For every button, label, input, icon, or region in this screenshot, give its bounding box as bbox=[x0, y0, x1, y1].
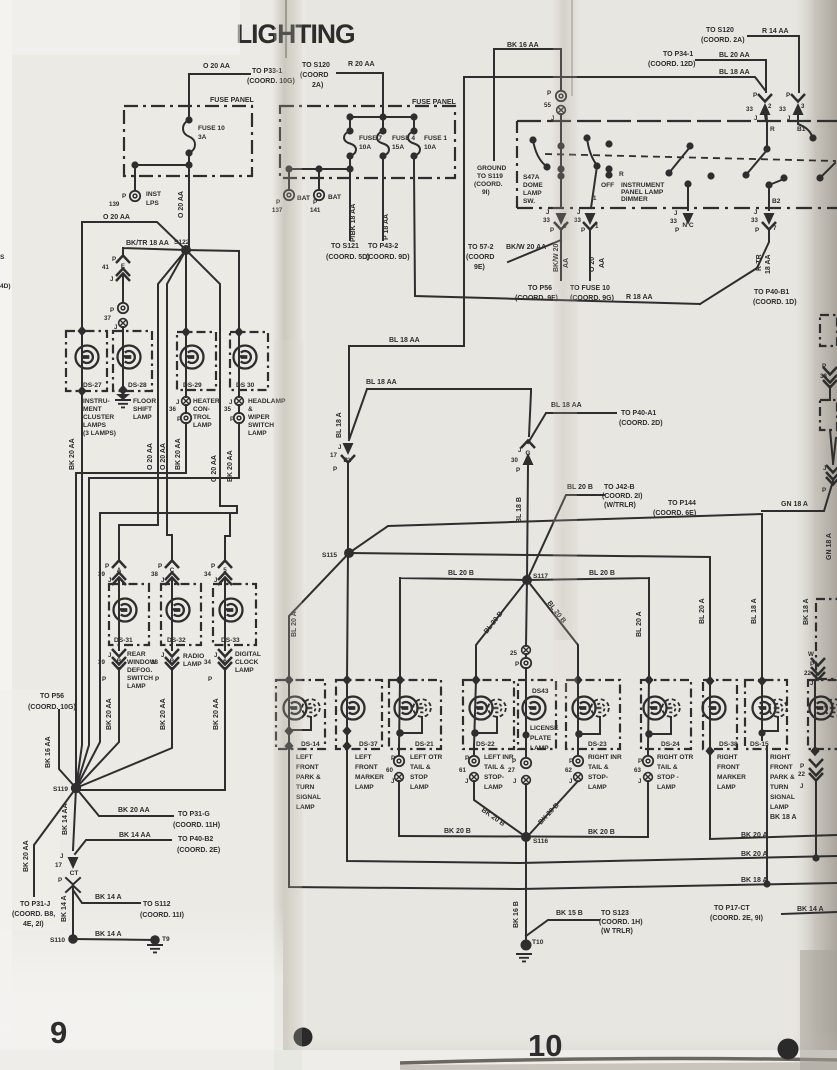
svg-text:BK 16 AA: BK 16 AA bbox=[45, 736, 52, 768]
svg-text:TURN: TURN bbox=[770, 784, 789, 791]
wire DS-21 ground to S116 bbox=[398, 781, 400, 836]
svg-text:FUSE PANEL: FUSE PANEL bbox=[210, 97, 255, 104]
svg-text:GN 18 A: GN 18 A bbox=[826, 533, 833, 560]
headlamp switch contact arm bbox=[742, 171, 749, 178]
wire BK 20 AA step from DS-30 bbox=[76, 478, 239, 788]
svg-text:WINDOW: WINDOW bbox=[127, 659, 157, 666]
lamp box DS-29 bbox=[177, 332, 216, 390]
svg-text:DIMMER: DIMMER bbox=[621, 196, 648, 203]
splice S122 bbox=[181, 245, 191, 255]
wire O 20 AA feed to fuse 10 bbox=[189, 74, 250, 120]
svg-text:139: 139 bbox=[109, 201, 120, 208]
svg-text:DS43: DS43 bbox=[532, 688, 549, 695]
svg-text:S: S bbox=[0, 254, 5, 261]
crease edge line bbox=[285, 0, 287, 58]
svg-text:DS-32: DS-32 bbox=[167, 637, 186, 644]
svg-text:J: J bbox=[577, 209, 581, 216]
fuse FUSE 1 10A bbox=[408, 117, 420, 169]
svg-text:BL 20 A: BL 20 A bbox=[699, 598, 706, 624]
svg-text:FRONT: FRONT bbox=[770, 764, 793, 771]
svg-text:2A): 2A) bbox=[312, 82, 323, 89]
wire BK 15 B to S123 bbox=[526, 920, 599, 936]
svg-text:TO P31-G: TO P31-G bbox=[178, 811, 210, 818]
svg-text:R 14 AA: R 14 AA bbox=[762, 28, 789, 35]
wire TO P34-1 BL 20 AA bbox=[696, 60, 766, 92]
connector P 27 below DS43 bbox=[521, 758, 531, 768]
svg-text:38: 38 bbox=[151, 571, 158, 578]
svg-text:PANEL LAMP: PANEL LAMP bbox=[621, 189, 664, 196]
connector 37 bbox=[118, 303, 128, 313]
lamp DS-38 bbox=[703, 697, 726, 720]
fuse panel box page 9 bbox=[124, 106, 252, 176]
wire step from vertical 220 bbox=[76, 513, 237, 788]
svg-text:B: B bbox=[170, 658, 175, 665]
svg-text:BL 20 B: BL 20 B bbox=[448, 570, 474, 577]
svg-text:DOME: DOME bbox=[523, 182, 543, 189]
wire BK 16 AA dome feed bbox=[494, 49, 561, 160]
svg-text:17: 17 bbox=[55, 862, 62, 869]
svg-text:(COORD: (COORD bbox=[466, 254, 494, 261]
lamp DS-22 bbox=[470, 697, 493, 720]
svg-text:(COORD. 2I): (COORD. 2I) bbox=[602, 493, 642, 500]
lamp box DS-24 bbox=[641, 680, 691, 749]
right page fold shading bbox=[552, 0, 580, 640]
svg-text:J: J bbox=[161, 652, 165, 659]
svg-text:CLUSTER: CLUSTER bbox=[83, 414, 114, 421]
svg-text:J: J bbox=[569, 778, 573, 785]
svg-text:J: J bbox=[823, 465, 827, 472]
svg-text:FUSE PANEL: FUSE PANEL bbox=[412, 99, 457, 106]
splice S110 bbox=[68, 934, 78, 944]
svg-text:SW.: SW. bbox=[523, 198, 535, 205]
wire TO P56 bbox=[59, 710, 76, 788]
dome switch contacts S47A bbox=[529, 136, 536, 143]
svg-text:P: P bbox=[822, 487, 826, 494]
svg-text:J: J bbox=[513, 778, 517, 785]
svg-text:O 20: O 20 bbox=[589, 257, 596, 272]
svg-text:BK 16 B: BK 16 B bbox=[513, 901, 520, 928]
svg-text:LAMP: LAMP bbox=[193, 422, 212, 429]
svg-text:P: P bbox=[516, 467, 520, 474]
ground T10 bbox=[521, 940, 532, 951]
svg-text:27: 27 bbox=[508, 767, 515, 774]
wire BK/W 20 AA to 57-2 bbox=[508, 240, 561, 262]
svg-text:3A: 3A bbox=[198, 134, 207, 141]
lamp box DS-33 bbox=[213, 584, 256, 645]
svg-text:J: J bbox=[546, 209, 550, 216]
svg-text:33: 33 bbox=[779, 106, 786, 113]
wire fuse bottom bus bbox=[135, 153, 189, 250]
svg-text:(W/TRLR): (W/TRLR) bbox=[604, 502, 636, 509]
wire DS-38 ground BK 20 A bus1 bbox=[710, 746, 837, 839]
svg-text:BK 20 A: BK 20 A bbox=[741, 851, 768, 858]
svg-text:FRONT: FRONT bbox=[717, 764, 740, 771]
svg-text:BK 20 AA: BK 20 AA bbox=[23, 840, 30, 872]
splice S119 bbox=[71, 783, 81, 793]
svg-text:P: P bbox=[105, 563, 109, 570]
binder hole dot left bbox=[294, 1028, 313, 1047]
connector BV bbox=[343, 443, 354, 455]
svg-text:PARK &: PARK & bbox=[770, 774, 795, 781]
svg-text:61: 61 bbox=[459, 767, 466, 774]
svg-text:DS-14: DS-14 bbox=[301, 741, 320, 748]
svg-text:(COORD. 6E): (COORD. 6E) bbox=[653, 510, 696, 517]
svg-text:P: P bbox=[569, 758, 573, 765]
svg-text:(COORD.: (COORD. bbox=[474, 181, 503, 188]
svg-text:P: P bbox=[512, 758, 516, 765]
svg-text:P: P bbox=[755, 227, 759, 234]
svg-text:G: G bbox=[525, 450, 530, 457]
wire BL 18 AA line2 to G bbox=[349, 389, 531, 440]
connector 33 right edge bbox=[823, 367, 837, 375]
lamp DS-21 bbox=[395, 697, 418, 720]
svg-text:30: 30 bbox=[511, 457, 518, 464]
svg-text:39: 39 bbox=[98, 571, 105, 578]
svg-text:10A: 10A bbox=[424, 144, 436, 151]
svg-text:33: 33 bbox=[820, 373, 827, 380]
lamp DS-27 bbox=[76, 346, 99, 369]
svg-text:INST: INST bbox=[146, 191, 161, 198]
B2 contact bbox=[765, 181, 772, 188]
svg-text:P: P bbox=[102, 676, 106, 683]
svg-text:34: 34 bbox=[204, 659, 211, 666]
fuse panel box page 10 bbox=[280, 106, 455, 178]
wire BK 20 AA to P31-J bbox=[34, 788, 76, 896]
svg-text:P: P bbox=[112, 256, 116, 263]
splice S116 bbox=[521, 832, 531, 842]
svg-text:BL 20 B: BL 20 B bbox=[589, 570, 615, 577]
svg-text:LAMP: LAMP bbox=[770, 804, 789, 811]
center fold crease between pages bbox=[272, 0, 306, 1070]
svg-text:BL 18 AA: BL 18 AA bbox=[389, 337, 420, 344]
svg-text:J: J bbox=[60, 853, 64, 860]
svg-text:TAIL &: TAIL & bbox=[657, 764, 678, 771]
svg-text:DS-33: DS-33 bbox=[221, 637, 240, 644]
svg-text:P 18 AA: P 18 AA bbox=[383, 214, 390, 240]
svg-text:(COORD. 2E, 9I): (COORD. 2E, 9I) bbox=[710, 915, 763, 922]
svg-text:TO 57-2: TO 57-2 bbox=[468, 244, 494, 251]
connector P under DS-29 bbox=[181, 413, 191, 423]
lamp DS-32 bbox=[167, 599, 190, 622]
connector 5 34 above DS-33 bbox=[218, 561, 232, 569]
connector P 62 below DS-23 bbox=[573, 756, 583, 766]
lamp box DS-30 bbox=[230, 332, 268, 390]
wire TO P17-CT BK 14 A bbox=[782, 912, 837, 914]
svg-text:BK 20 B: BK 20 B bbox=[588, 829, 615, 836]
svg-text:TO P31-J: TO P31-J bbox=[20, 901, 50, 908]
svg-text:J: J bbox=[110, 276, 114, 283]
svg-text:INSTRU-: INSTRU- bbox=[83, 398, 110, 405]
wire S122 fan to row2 feeds bbox=[158, 250, 239, 560]
svg-text:GROUND: GROUND bbox=[477, 165, 507, 172]
svg-text:LAMP: LAMP bbox=[127, 683, 146, 690]
svg-text:DS-22: DS-22 bbox=[476, 741, 495, 748]
svg-text:P: P bbox=[333, 466, 337, 473]
wire S119 collector horizontal bbox=[76, 789, 225, 791]
svg-text:TROL: TROL bbox=[193, 414, 211, 421]
switch box dome lamp sw / dimmer bbox=[517, 120, 837, 122]
svg-text:P: P bbox=[230, 416, 234, 423]
svg-text:DS-29: DS-29 bbox=[183, 382, 202, 389]
connector 2 bbox=[758, 94, 772, 102]
wire S117 to J42-B bbox=[527, 495, 604, 580]
svg-text:DS-28: DS-28 bbox=[128, 382, 147, 389]
svg-text:18 AA: 18 AA bbox=[765, 254, 772, 274]
svg-text:J: J bbox=[176, 399, 180, 406]
svg-text:P: P bbox=[155, 676, 159, 683]
svg-text:RIGHT: RIGHT bbox=[717, 754, 738, 761]
wire BK 14 A to S112 bbox=[73, 890, 140, 903]
dashed box right edge upper bbox=[816, 599, 837, 679]
partial lamp right bbox=[810, 697, 833, 720]
svg-text:CLOCK: CLOCK bbox=[235, 659, 259, 666]
NC contact bbox=[684, 180, 691, 187]
svg-text:TO P40-B2: TO P40-B2 bbox=[178, 836, 213, 843]
svg-text:36: 36 bbox=[169, 406, 176, 413]
svg-text:BK 18 A: BK 18 A bbox=[770, 814, 797, 821]
svg-text:HEATER: HEATER bbox=[193, 398, 220, 405]
svg-text:25: 25 bbox=[510, 650, 517, 657]
svg-text:P: P bbox=[786, 92, 790, 99]
svg-text:LICENSE: LICENSE bbox=[530, 725, 559, 732]
lamp box DS-23 bbox=[566, 680, 620, 749]
lamp box DS-37 bbox=[336, 680, 382, 749]
svg-text:141: 141 bbox=[310, 207, 321, 214]
svg-text:2: 2 bbox=[768, 103, 772, 110]
svg-text:LAMP: LAMP bbox=[183, 661, 202, 668]
wire BK 14 AA S119 down to CT bbox=[73, 788, 76, 850]
svg-text:BL 18 A: BL 18 A bbox=[751, 598, 758, 624]
svg-text:J: J bbox=[465, 778, 469, 785]
svg-text:O 20 AA: O 20 AA bbox=[211, 455, 218, 482]
svg-text:J: J bbox=[674, 210, 678, 217]
wire BL 18 AA to P40-A1 bbox=[528, 413, 616, 443]
svg-text:B2: B2 bbox=[772, 198, 781, 205]
page 9 text labels bbox=[0, 63, 295, 944]
svg-text:O 20 AA: O 20 AA bbox=[147, 443, 154, 470]
svg-text:60: 60 bbox=[386, 767, 393, 774]
svg-text:B: B bbox=[117, 658, 122, 665]
wire DS-37 ground BK 20 A bus bbox=[347, 746, 837, 863]
svg-text:CON-: CON- bbox=[193, 406, 210, 413]
svg-text:J: J bbox=[229, 399, 233, 406]
svg-text:J: J bbox=[800, 783, 804, 790]
lamp DS-23 bbox=[573, 697, 596, 720]
wire BK 14 AA to P40-B2 bbox=[75, 840, 171, 854]
svg-text:SWITCH: SWITCH bbox=[127, 675, 153, 682]
lamp DS-29 bbox=[181, 346, 204, 369]
svg-text:DS-38: DS-38 bbox=[719, 741, 738, 748]
svg-text:O 20 AA: O 20 AA bbox=[160, 443, 167, 470]
svg-text:(COORD. 1H): (COORD. 1H) bbox=[599, 919, 643, 926]
wire BAT bottom bus bbox=[289, 169, 350, 240]
svg-text:BK 20 AA: BK 20 AA bbox=[106, 698, 113, 730]
connector 22 right edge bbox=[809, 759, 823, 767]
lamp box DS-31 bbox=[109, 584, 149, 645]
svg-text:P: P bbox=[208, 676, 212, 683]
svg-text:S117: S117 bbox=[533, 573, 548, 580]
wire R 20 AA feed to fuse 4 bbox=[337, 73, 383, 117]
svg-text:LAMP: LAMP bbox=[355, 784, 374, 791]
svg-text:REAR: REAR bbox=[127, 651, 146, 658]
far right contact arm bbox=[816, 174, 823, 181]
lamp box DS-21 bbox=[389, 680, 441, 749]
svg-text:S115: S115 bbox=[322, 552, 337, 559]
svg-text:10A: 10A bbox=[359, 144, 371, 151]
svg-text:BK/TR 18 AA: BK/TR 18 AA bbox=[126, 240, 169, 247]
svg-text:TO P56: TO P56 bbox=[40, 693, 64, 700]
connector 7 bbox=[764, 213, 775, 225]
svg-text:TO P34-1: TO P34-1 bbox=[663, 51, 693, 58]
svg-text:TO P40-A1: TO P40-A1 bbox=[621, 410, 656, 417]
svg-text:TO P56: TO P56 bbox=[528, 285, 552, 292]
svg-text:BL 20 AA: BL 20 AA bbox=[719, 52, 750, 59]
svg-text:(COORD. 2A): (COORD. 2A) bbox=[701, 37, 745, 44]
connector 6 34 below DS-33 bbox=[218, 649, 232, 657]
lamp box DS-14 bbox=[276, 680, 325, 749]
wire step DS-31 feed bbox=[119, 525, 158, 560]
small dashed box right edge lower bbox=[820, 400, 837, 430]
ground floor shift lamp bbox=[118, 385, 127, 395]
dimmer R contact arm bbox=[665, 169, 672, 176]
svg-text:17: 17 bbox=[330, 452, 337, 459]
svg-text:TO S123: TO S123 bbox=[601, 910, 629, 917]
svg-text:(COORD. 11I): (COORD. 11I) bbox=[140, 912, 184, 919]
svg-text:P/BK 18 AA: P/BK 18 AA bbox=[350, 204, 357, 242]
svg-text:AA: AA bbox=[599, 258, 606, 268]
svg-text:1: 1 bbox=[595, 223, 599, 230]
svg-text:TO P40-B1: TO P40-B1 bbox=[754, 289, 789, 296]
svg-text:LAMP: LAMP bbox=[523, 190, 542, 197]
svg-text:TO S120: TO S120 bbox=[706, 27, 734, 34]
svg-text:FLOOR: FLOOR bbox=[133, 398, 156, 405]
svg-text:4D): 4D) bbox=[0, 283, 11, 290]
wire fuse 1 down long R 18 AA bbox=[414, 169, 700, 304]
svg-text:BK 20 AA: BK 20 AA bbox=[118, 807, 150, 814]
svg-text:S47A: S47A bbox=[523, 174, 540, 181]
svg-text:41: 41 bbox=[102, 264, 109, 271]
svg-text:3: 3 bbox=[801, 103, 805, 110]
switch linkage dashed line bbox=[545, 154, 836, 161]
svg-text:N C: N C bbox=[682, 222, 694, 229]
svg-text:(W TRLR): (W TRLR) bbox=[601, 928, 633, 935]
svg-text:BL 20 A: BL 20 A bbox=[636, 611, 643, 637]
svg-text:R 20 AA: R 20 AA bbox=[348, 61, 375, 68]
svg-text:P: P bbox=[158, 563, 162, 570]
svg-text:LAMP: LAMP bbox=[717, 784, 736, 791]
svg-text:(COORD. 2D): (COORD. 2D) bbox=[619, 420, 663, 427]
svg-text:STOP-: STOP- bbox=[588, 774, 608, 781]
lamp DS-14 bbox=[284, 697, 307, 720]
svg-text:E: E bbox=[121, 263, 125, 270]
lamp box DS-38 bbox=[703, 680, 737, 749]
svg-text:RIGHT OTR: RIGHT OTR bbox=[657, 754, 694, 761]
svg-text:(COORD. 10G): (COORD. 10G) bbox=[28, 704, 76, 711]
svg-text:MARKER: MARKER bbox=[355, 774, 384, 781]
svg-text:LPS: LPS bbox=[146, 200, 159, 207]
svg-text:BK 20 AA: BK 20 AA bbox=[69, 438, 76, 470]
svg-text:P: P bbox=[465, 755, 469, 762]
svg-text:(COORD. 1D): (COORD. 1D) bbox=[753, 299, 797, 306]
svg-text:LEFT OTR: LEFT OTR bbox=[410, 754, 442, 761]
connector J 35 under DS-30 bbox=[235, 397, 244, 406]
wire S116 horizontal bbox=[399, 836, 648, 837]
wire BK 20 AA step from DS-29 to S119 bbox=[76, 473, 186, 786]
fuse FUSE 4 15A bbox=[377, 117, 389, 169]
svg-text:O 20 AA: O 20 AA bbox=[203, 63, 230, 70]
connector G bbox=[521, 441, 535, 449]
svg-text:35: 35 bbox=[224, 406, 231, 413]
svg-text:TAIL &: TAIL & bbox=[484, 764, 505, 771]
svg-text:BK 14 AA: BK 14 AA bbox=[62, 803, 69, 835]
lamp DS-30 bbox=[234, 346, 257, 369]
svg-text:STOP: STOP bbox=[410, 774, 428, 781]
svg-text:S116: S116 bbox=[533, 838, 548, 845]
svg-text:LAMP: LAMP bbox=[588, 784, 607, 791]
svg-text:DS-21: DS-21 bbox=[415, 741, 434, 748]
svg-text:LAMP: LAMP bbox=[530, 745, 549, 752]
bottom left lighter paper bbox=[0, 905, 283, 1052]
splice S115 bbox=[344, 548, 354, 558]
svg-text:BL 18 AA: BL 18 AA bbox=[719, 69, 750, 76]
svg-text:BK 14 A: BK 14 A bbox=[61, 895, 68, 922]
svg-text:GN 18 A: GN 18 A bbox=[781, 501, 808, 508]
svg-text:P: P bbox=[313, 199, 317, 206]
svg-text:W: W bbox=[808, 651, 814, 658]
svg-text:C: C bbox=[170, 567, 175, 574]
svg-text:BK 15 B: BK 15 B bbox=[556, 910, 583, 917]
wire DS-37 feed bbox=[347, 553, 348, 680]
svg-text:BK 14 A: BK 14 A bbox=[95, 894, 122, 901]
wire BL 18 AA stub to BV line1 bbox=[349, 346, 464, 438]
wire step DS-33 feed bbox=[225, 513, 230, 560]
svg-text:J: J bbox=[638, 778, 642, 785]
connector 6 below box bbox=[556, 213, 567, 225]
svg-text:DS-15: DS-15 bbox=[750, 741, 769, 748]
fuse FUSE 10 3A bbox=[183, 120, 195, 153]
svg-text:CT: CT bbox=[70, 870, 79, 877]
svg-text:BK 20 B: BK 20 B bbox=[444, 828, 471, 835]
svg-text:BAT: BAT bbox=[328, 194, 341, 201]
svg-text:39: 39 bbox=[98, 659, 105, 666]
svg-text:BK 20 AA: BK 20 AA bbox=[160, 698, 167, 730]
svg-text:BK 14 AA: BK 14 AA bbox=[119, 832, 151, 839]
wire GN 18 A bbox=[762, 438, 836, 511]
svg-text:TO J42-B: TO J42-B bbox=[604, 484, 635, 491]
svg-text:33: 33 bbox=[746, 106, 753, 113]
lamp DS-24 bbox=[644, 697, 667, 720]
svg-text:BV: BV bbox=[343, 457, 353, 464]
wire BK/TR 18 AA from S122 to E connector bbox=[123, 248, 186, 255]
svg-text:DS-37: DS-37 bbox=[359, 741, 378, 748]
svg-text:DS 30: DS 30 bbox=[236, 382, 255, 389]
svg-text:LAMP: LAMP bbox=[484, 784, 503, 791]
svg-text:DS-31: DS-31 bbox=[114, 637, 133, 644]
connector B 39 below DS-31 bbox=[112, 649, 126, 657]
lamp DS-37 bbox=[342, 697, 365, 720]
svg-text:7: 7 bbox=[773, 225, 777, 232]
connector BAT 137 bbox=[284, 190, 294, 200]
wire DS-27 drop bbox=[81, 222, 83, 332]
right edge shadow bbox=[790, 0, 837, 1070]
svg-text:LAMP: LAMP bbox=[133, 414, 152, 421]
ground T9 bbox=[150, 935, 160, 945]
svg-text:55: 55 bbox=[544, 102, 551, 109]
svg-text:P: P bbox=[122, 193, 126, 200]
connector BAT 141 bbox=[314, 190, 324, 200]
svg-text:J: J bbox=[338, 444, 342, 451]
connector P 60 below DS-21 bbox=[394, 756, 404, 766]
